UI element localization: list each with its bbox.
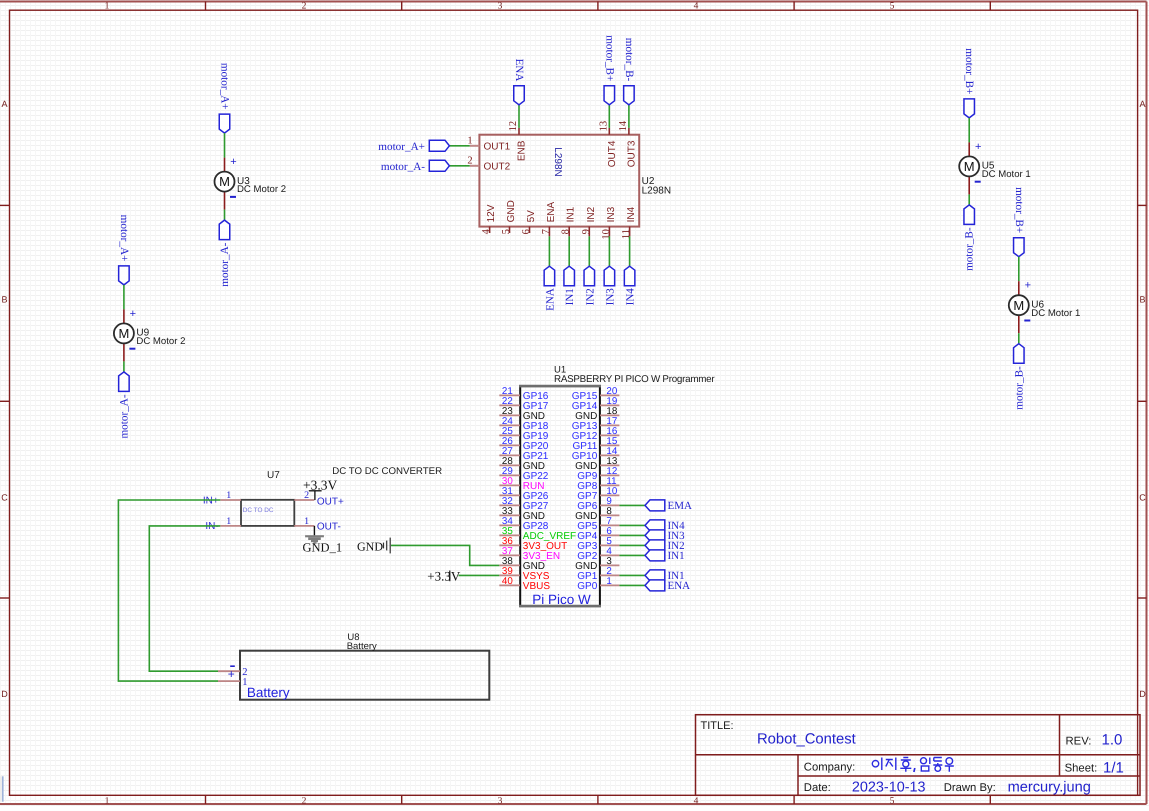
U1 pin 3 GND (right)	[575, 556, 619, 572]
svg-text:motor_A+: motor_A+	[378, 141, 425, 153]
svg-text:ENA: ENA	[546, 202, 557, 223]
U1 pin 40 VBUS (left)	[499, 576, 550, 592]
svg-text:+: +	[975, 141, 981, 153]
svg-text:Company:: Company:	[804, 762, 856, 774]
svg-text:DC Motor 1: DC Motor 1	[1031, 308, 1080, 319]
U7 pin 2 OUT+	[294, 490, 344, 507]
svg-text:motor_A-: motor_A-	[381, 161, 425, 173]
wire from U5 - pin to motor_B- flag	[968, 194, 970, 205]
svg-text:13: 13	[598, 121, 609, 132]
net flag motor_B+ (top of U6)	[1013, 187, 1025, 257]
svg-text:GND: GND	[357, 540, 383, 554]
U1 pin 24 GP18 (left)	[499, 416, 549, 432]
U1 pin 9 GP6 (right)	[577, 496, 619, 512]
svg-text:OUT4: OUT4	[607, 140, 618, 167]
U1 pin 4 GP2 (right)	[577, 546, 619, 562]
U1 pin 10 GP7 (right)	[577, 486, 619, 502]
U1 pin 5 GP3 (right)	[577, 536, 619, 552]
net flag IN3 at U2 pin 10	[604, 266, 616, 305]
svg-text:6: 6	[521, 229, 532, 234]
svg-text:+: +	[130, 308, 136, 320]
svg-text:1: 1	[226, 516, 231, 527]
svg-text:Robot_Contest: Robot_Contest	[757, 732, 856, 748]
svg-text:GND: GND	[506, 200, 517, 222]
svg-text:M: M	[219, 174, 230, 189]
svg-text:ENA: ENA	[668, 580, 691, 592]
svg-text:DC TO DC CONVERTER: DC TO DC CONVERTER	[332, 466, 442, 477]
svg-text:40: 40	[502, 576, 513, 587]
svg-text:IN3: IN3	[606, 206, 617, 222]
net flag ENA right of U1	[645, 580, 690, 592]
svg-text:Sheet:: Sheet:	[1065, 763, 1098, 775]
U1 pin 35 ADC_VREF (left)	[499, 526, 576, 542]
wire U2 pin 1 to motor_A+ flag	[449, 145, 469, 147]
U1 pin 25 GP19 (left)	[499, 426, 549, 442]
svg-text:M: M	[118, 326, 129, 341]
net flag IN4 at U2 pin 11	[624, 266, 636, 305]
svg-text:ENA: ENA	[513, 59, 525, 82]
wire from motor_B+ flag to U5 + pin	[968, 118, 970, 142]
wire U1 to IN3 flag at y=535.4	[619, 534, 645, 536]
svg-text:U7: U7	[267, 470, 280, 481]
U2 pin 2 OUT2	[467, 156, 510, 173]
svg-text:1/1: 1/1	[1103, 759, 1124, 776]
svg-text:motor_B+: motor_B+	[1013, 187, 1025, 233]
wire from U9 - pin to motor_A- flag	[123, 361, 125, 372]
svg-text:DC Motor 2: DC Motor 2	[237, 184, 286, 195]
svg-text:12V: 12V	[486, 204, 497, 222]
svg-text:14: 14	[618, 120, 629, 131]
net flag motor_B- at U2 pin 14	[623, 38, 635, 105]
svg-text:OUT+: OUT+	[317, 497, 344, 508]
U1 pin 14 GP10 (right)	[572, 446, 620, 462]
U1 pin 6 GP4 (right)	[577, 526, 619, 542]
U2 pin 7 ENA	[541, 202, 557, 237]
wire GND label to U1 pin 38	[391, 545, 499, 565]
wire U2 pin 2 to motor_A- flag	[449, 165, 469, 167]
svg-text:L298N: L298N	[642, 186, 671, 197]
U1 pin 28 GND (left)	[499, 456, 545, 472]
svg-text:+: +	[1025, 280, 1031, 292]
svg-text:1: 1	[105, 797, 110, 806]
U1 pin 37 3V3_EN (left)	[499, 546, 560, 562]
svg-text:5V: 5V	[526, 210, 537, 223]
net flag motor_B+ at U2 pin 13	[604, 35, 616, 105]
U1 pin 22 GP17 (left)	[499, 396, 549, 412]
U7 pin 1 IN-	[205, 516, 241, 532]
svg-text:B: B	[1139, 295, 1145, 305]
U1 pin 2 GP1 (right)	[577, 566, 619, 582]
svg-text:8: 8	[561, 229, 572, 234]
title block texts	[701, 720, 1124, 796]
U1 pin 30 RUN (left)	[499, 476, 544, 492]
DC motor U5 (DC Motor 1)	[959, 141, 1031, 195]
DC motor U6 (DC Motor 1)	[1009, 280, 1081, 334]
svg-text:9: 9	[581, 229, 592, 234]
U2 pin 8 IN1	[561, 206, 577, 236]
svg-text:10: 10	[601, 229, 612, 240]
svg-text:4: 4	[481, 228, 492, 234]
U2 pin 1 OUT1	[467, 136, 510, 153]
svg-text:IN1: IN1	[668, 550, 685, 562]
svg-text:1.0: 1.0	[1102, 731, 1123, 748]
U1 pin 31 GP26 (left)	[499, 486, 549, 502]
svg-text:RASPBERRY PI PICO W Programmer: RASPBERRY PI PICO W Programmer	[554, 374, 715, 385]
DC motor U3 (DC Motor 2)	[215, 156, 287, 210]
net flag motor_B- (bottom of U6)	[1013, 344, 1025, 410]
svg-text:12: 12	[508, 121, 519, 132]
svg-text:Drawn By:: Drawn By:	[944, 782, 996, 794]
svg-text:EMA: EMA	[668, 500, 693, 512]
svg-text:Date:: Date:	[804, 782, 831, 794]
net flag IN1 at U2 pin 8	[564, 266, 576, 305]
net flag IN3 right of U1	[645, 530, 685, 542]
U2 pin 10 IN3	[601, 206, 617, 239]
wire U1 to ENA flag at y=585.4	[619, 584, 645, 586]
U1 pin 26 GP20 (left)	[499, 436, 549, 452]
net flag motor_A- (bottom of U9)	[118, 372, 130, 439]
svg-text:ENB: ENB	[517, 140, 528, 161]
net flag IN4 right of U1	[645, 520, 685, 532]
title block	[696, 715, 1141, 796]
svg-text:DC Motor 1: DC Motor 1	[982, 169, 1031, 180]
svg-text:IN4: IN4	[626, 206, 637, 222]
U2 pin 4 12V	[481, 204, 497, 234]
svg-text:2023-10-13: 2023-10-13	[852, 779, 926, 795]
company name Korean text	[872, 758, 954, 773]
svg-text:11: 11	[621, 229, 632, 239]
svg-text:motor_B+: motor_B+	[963, 48, 975, 94]
U2 pin 12 ENB	[508, 121, 528, 161]
wire U2 pin 13 to motor_B+ flag	[608, 105, 610, 128]
svg-text:motor_B-: motor_B-	[1013, 366, 1025, 410]
wire from motor_A+ flag to U3 + pin	[224, 133, 226, 158]
U7 pin 1 OUT-	[294, 516, 340, 532]
wire U1 to IN2 flag at y=545.4	[619, 544, 645, 546]
svg-text:OUT-: OUT-	[317, 521, 341, 532]
svg-text:IN2: IN2	[584, 288, 596, 305]
svg-text:A: A	[1139, 99, 1145, 109]
svg-text:IN3: IN3	[604, 288, 616, 306]
svg-text:motor_B+: motor_B+	[604, 35, 616, 81]
U2 pin 14 OUT3	[618, 120, 638, 167]
svg-text:+: +	[230, 156, 236, 168]
wire U2 pin 12 to ENA flag	[518, 105, 520, 128]
net label +3.3V left of U1	[427, 568, 461, 583]
net flag IN2 at U2 pin 9	[584, 266, 596, 305]
svg-text:2: 2	[302, 2, 307, 12]
svg-text:IN2: IN2	[586, 206, 597, 222]
svg-text:1: 1	[226, 490, 231, 501]
net flag EMA right of U1	[645, 500, 692, 512]
MCU U1 Raspberry Pi Pico W body	[519, 364, 715, 607]
U1 pin 13 GND (right)	[575, 456, 619, 472]
svg-text:D: D	[1139, 689, 1146, 699]
svg-text:DC TO DC: DC TO DC	[243, 507, 274, 514]
svg-text:B: B	[1, 295, 7, 305]
svg-text:4: 4	[694, 2, 699, 12]
net flag motor_B- (bottom of U5)	[964, 205, 976, 271]
wire U1 to IN1 flag at y=575.4	[619, 574, 645, 576]
U1 pin 8 GND (right)	[575, 506, 619, 522]
wire U2 pin 7 to ENA flag	[548, 236, 550, 266]
wire from U6 - pin to motor_B- flag	[1018, 333, 1020, 344]
net flag motor_A+ (top of U9)	[118, 215, 130, 285]
U1 pin 23 GND (left)	[499, 406, 545, 422]
wire U2 pin 14 to motor_B- flag	[628, 105, 630, 128]
svg-text:7: 7	[541, 229, 552, 234]
svg-text:Pi Pico W: Pi Pico W	[532, 592, 591, 607]
U1 pin 36 3V3_OUT (left)	[499, 536, 567, 552]
U1 pin 16 GP12 (right)	[572, 426, 620, 442]
svg-text:5: 5	[501, 229, 512, 234]
svg-text:1: 1	[304, 516, 309, 527]
svg-text:IN+: IN+	[203, 495, 219, 506]
svg-text:REV:: REV:	[1066, 735, 1092, 747]
svg-text:motor_B-: motor_B-	[623, 38, 635, 82]
net flag motor_A- at U2 pin 2	[381, 160, 450, 173]
svg-text:mercury.jung: mercury.jung	[1008, 780, 1091, 796]
net flag motor_B+ (top of U5)	[963, 48, 975, 118]
svg-text:1: 1	[242, 677, 247, 688]
svg-text:motor_A-: motor_A-	[219, 242, 231, 286]
wire U7 IN- to U8 pin 2	[149, 526, 220, 671]
svg-text:1: 1	[467, 136, 472, 147]
U1 pin 20 GP15 (right)	[572, 386, 620, 402]
wire U7 IN+ to U8 pin 1	[118, 500, 220, 681]
net flag IN1 right of U1	[645, 550, 685, 562]
U7 pin 1 IN+	[203, 490, 241, 506]
svg-text:ENA: ENA	[544, 288, 556, 311]
svg-text:+: +	[228, 667, 235, 681]
net label GND left of U1	[357, 538, 390, 554]
svg-text:OUT1: OUT1	[484, 141, 511, 152]
svg-text:5: 5	[890, 2, 895, 12]
U1 pin 21 GP16 (left)	[499, 386, 549, 402]
U1 pin 7 GP5 (right)	[577, 516, 619, 532]
svg-text:4: 4	[694, 797, 699, 806]
svg-text:VBUS: VBUS	[523, 581, 551, 592]
wire from motor_A+ flag to U9 + pin	[123, 285, 125, 310]
wire U2 pin 11 to IN4 flag	[629, 236, 631, 266]
wire U1 to EMA flag at y=505.4	[619, 504, 645, 506]
svg-text:2: 2	[467, 156, 472, 167]
svg-text:motor_A+: motor_A+	[219, 63, 231, 110]
wire U1 to IN4 flag at y=525.4	[619, 524, 645, 526]
power symbol +3.3V at U7 OUT+	[303, 477, 337, 500]
net flag IN2 right of U1	[645, 540, 685, 552]
U1 pin 29 GP22 (left)	[499, 466, 549, 482]
svg-text:GND_1: GND_1	[303, 541, 343, 555]
U1 pin 34 GP28 (left)	[499, 516, 549, 532]
svg-text:TITLE:: TITLE:	[701, 720, 734, 732]
net flag motor_A- (bottom of U3)	[219, 220, 231, 287]
svg-text:Battery: Battery	[247, 685, 290, 700]
svg-text:A: A	[1, 99, 7, 109]
wire U2 pin 10 to IN3 flag	[608, 236, 610, 266]
svg-text:3: 3	[498, 797, 503, 806]
net flag ENA at U2 pin 12	[513, 59, 525, 105]
converter U7 DC TO DC body	[241, 466, 442, 526]
svg-text:Battery: Battery	[347, 641, 377, 652]
U2 pin 13 OUT4	[598, 121, 618, 167]
svg-text:C: C	[1, 493, 8, 503]
U2 pin 5 GND	[501, 200, 517, 234]
svg-text:DC Motor 2: DC Motor 2	[136, 336, 185, 347]
U1 pin 1 GP0 (right)	[577, 576, 619, 592]
U1 pin 15 GP11 (right)	[572, 436, 619, 452]
DC motor U9 (DC Motor 2)	[114, 308, 186, 362]
wire U2 pin 9 to IN2 flag	[588, 236, 590, 266]
U2 pin 6 5V	[521, 210, 537, 235]
U1 pin 11 GP8 (right)	[577, 476, 619, 492]
U8 pin 2 (-)	[218, 666, 247, 678]
svg-text:IN1: IN1	[566, 206, 577, 222]
svg-text:M: M	[964, 159, 975, 174]
canvas scroll artifact bottom-left	[0, 776, 2, 801]
net flag ENA at U2 pin 7	[544, 266, 556, 311]
svg-text:1: 1	[606, 576, 611, 587]
U1 pin 27 GP21 (left)	[499, 446, 549, 462]
svg-text:+3.3V: +3.3V	[303, 477, 337, 492]
U1 pin 33 GND (left)	[499, 506, 545, 522]
svg-text:1: 1	[105, 2, 110, 12]
U1 pin 39 VSYS (left)	[499, 566, 550, 582]
U1 pin 17 GP13 (right)	[572, 416, 620, 432]
svg-text:OUT3: OUT3	[626, 140, 637, 167]
svg-text:+3.3V: +3.3V	[427, 568, 461, 583]
svg-text:C: C	[1139, 493, 1146, 503]
svg-text:motor_A+: motor_A+	[118, 215, 130, 262]
svg-text:motor_A-: motor_A-	[118, 394, 130, 438]
svg-text:2: 2	[302, 797, 307, 806]
svg-text:3: 3	[498, 2, 503, 12]
svg-text:motor_B-: motor_B-	[964, 227, 976, 271]
driver IC U2 L298N body	[479, 135, 671, 227]
battery U8 body	[240, 632, 489, 700]
svg-text:OUT2: OUT2	[484, 161, 511, 172]
U2 pin 11 IN4	[621, 206, 637, 239]
U2 pin 9 IN2	[581, 206, 597, 236]
net flag motor_A+ (top of U3)	[219, 63, 231, 133]
svg-text:5: 5	[890, 797, 895, 806]
net flag IN1 right of U1	[645, 570, 685, 582]
svg-text:IN1: IN1	[564, 288, 576, 305]
wire +3.3V label to U1 pin 39	[459, 574, 500, 576]
U8 pin 1 (+)	[218, 667, 247, 688]
U1 pin 18 GND (right)	[575, 406, 619, 422]
wire U2 pin 8 to IN1 flag	[568, 236, 570, 266]
U1 pin 38 GND (left)	[499, 556, 545, 572]
U1 pin 12 GP9 (right)	[577, 466, 619, 482]
svg-text:GP0: GP0	[577, 581, 597, 592]
wire from U3 - pin to motor_A- flag	[224, 210, 226, 221]
svg-text:L298N: L298N	[552, 147, 563, 176]
U1 pin 32 GP27 (left)	[499, 496, 549, 512]
svg-text:M: M	[1013, 298, 1024, 313]
U1 pin 19 GP14 (right)	[572, 396, 620, 412]
svg-text:IN4: IN4	[625, 288, 637, 306]
wire from motor_B+ flag to U6 + pin	[1018, 257, 1020, 282]
wire U1 to IN1 flag at y=555.4	[619, 554, 645, 556]
ground symbol GND_1 at U7 OUT-	[303, 526, 343, 555]
svg-text:D: D	[1, 689, 8, 699]
net flag motor_A+ at U2 pin 1	[378, 140, 449, 153]
